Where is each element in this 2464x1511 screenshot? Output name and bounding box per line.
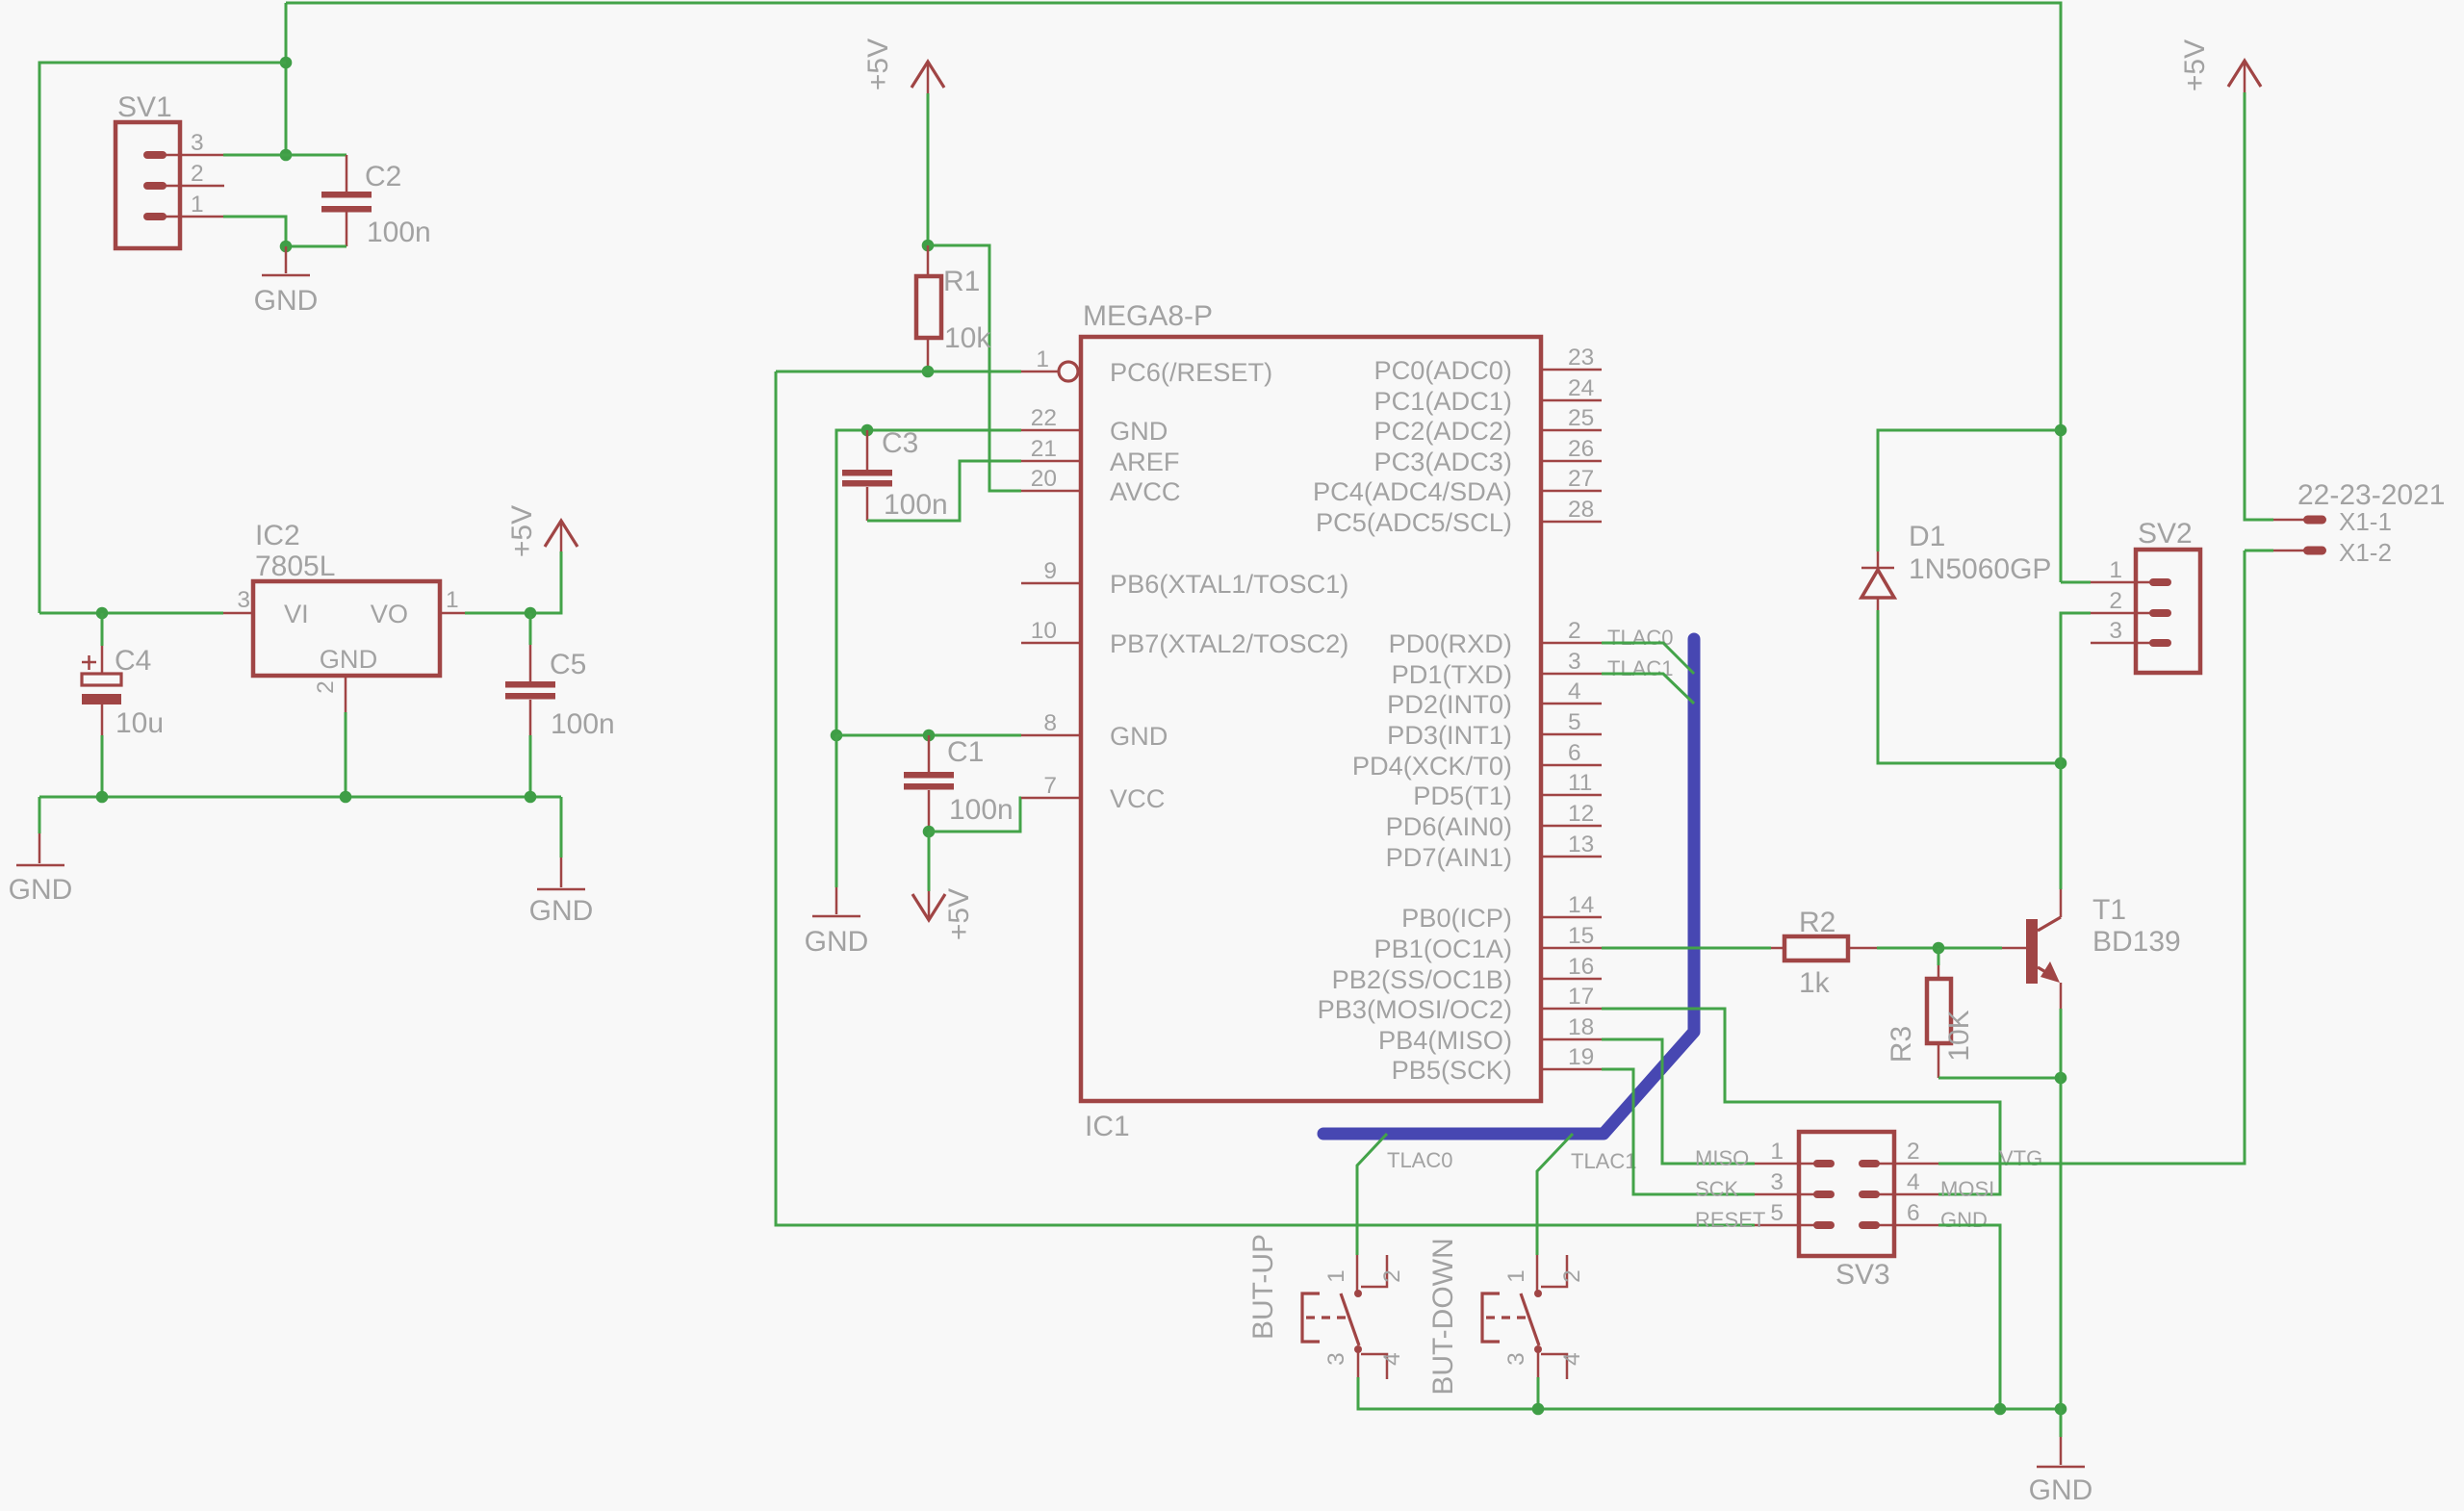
wire pin8 GND — [836, 734, 1021, 737]
svg-text:SV1: SV1 — [117, 91, 172, 123]
svg-text:PD3(INT1): PD3(INT1) — [1387, 720, 1512, 750]
svg-text:23: 23 — [1568, 345, 1594, 371]
svg-text:PB2(SS/OC1B): PB2(SS/OC1B) — [1332, 964, 1512, 994]
svg-text:GND: GND — [529, 895, 594, 927]
svg-text:R3: R3 — [1886, 1026, 1917, 1063]
svg-text:PC0(ADC0): PC0(ADC0) — [1373, 355, 1512, 385]
connector SV2 — [2136, 550, 2200, 673]
svg-text:R2: R2 — [1799, 907, 1835, 938]
terminal X1-2 — [2273, 550, 2307, 552]
ground GND under SV1 — [285, 246, 288, 273]
svg-text:100n: 100n — [949, 794, 1014, 826]
node RESET junction — [922, 366, 935, 378]
svg-text:22-23-2021: 22-23-2021 — [2297, 479, 2445, 511]
svg-text:PD0(RXD): PD0(RXD) — [1389, 628, 1512, 658]
svg-text:28: 28 — [1568, 497, 1594, 523]
capacitor C4 polarized — [101, 613, 104, 646]
svg-text:2: 2 — [313, 680, 339, 694]
ground GND bottom right — [2060, 1409, 2063, 1437]
svg-text:10K: 10K — [1943, 1010, 1975, 1061]
node C1 bottom junction — [923, 826, 936, 838]
svg-text:PD7(AIN1): PD7(AIN1) — [1386, 842, 1512, 872]
power +5V arrow at 7805 — [560, 521, 563, 551]
wire raw rail to SV2 pin1 — [2061, 581, 2091, 584]
svg-text:7805L: 7805L — [255, 551, 335, 582]
pin IC1-16 — [1541, 978, 1602, 981]
svg-text:2: 2 — [1379, 1269, 1405, 1283]
pin SV3-4 MOSI — [1869, 1193, 1938, 1196]
svg-text:SV3: SV3 — [1835, 1259, 1890, 1291]
svg-text:PB7(XTAL2/TOSC2): PB7(XTAL2/TOSC2) — [1110, 628, 1348, 658]
wire +5V to AVCC — [928, 245, 1021, 491]
svg-text:1: 1 — [446, 587, 459, 613]
svg-text:GND: GND — [1110, 416, 1168, 446]
wire D1 top branch — [1878, 430, 2061, 551]
node gnd rail junction 1 — [1532, 1403, 1545, 1416]
svg-text:BD139: BD139 — [2092, 926, 2181, 958]
diode D1 1N5060GP — [1877, 551, 1880, 570]
svg-text:AVCC: AVCC — [1110, 476, 1181, 506]
svg-text:+5V: +5V — [506, 505, 538, 557]
svg-text:1k: 1k — [1799, 967, 1831, 999]
power +5V arrow top middle — [927, 62, 930, 93]
wire input to VI — [39, 612, 223, 615]
wire PB1 to R2 — [1602, 947, 1771, 950]
svg-text:VCC: VCC — [1110, 783, 1165, 813]
power +5V arrow down — [928, 832, 931, 891]
svg-text:PC3(ADC3): PC3(ADC3) — [1373, 447, 1512, 476]
svg-text:PB4(MISO): PB4(MISO) — [1378, 1025, 1512, 1055]
pin IC1-13 — [1541, 856, 1602, 858]
svg-text:26: 26 — [1568, 436, 1594, 462]
svg-text:2: 2 — [1907, 1139, 1920, 1165]
wire R2 to base — [1877, 947, 2002, 950]
svg-text:GND: GND — [1940, 1208, 1988, 1232]
pin IC1-18 PB4 — [1541, 1038, 1602, 1041]
svg-text:5: 5 — [1770, 1200, 1784, 1226]
svg-text:1: 1 — [1323, 1269, 1349, 1283]
svg-text:25: 25 — [1568, 405, 1594, 431]
pin SV3-2 VTG — [1869, 1163, 1938, 1165]
pin SV3-1 MISO — [1755, 1163, 1824, 1165]
pin IC2-3 VI — [223, 612, 253, 615]
svg-text:3: 3 — [1323, 1352, 1349, 1366]
svg-text:2: 2 — [1559, 1269, 1585, 1283]
pin IC1-1 PC6/RESET with bubble — [1021, 371, 1059, 373]
svg-text:1: 1 — [1503, 1269, 1529, 1283]
svg-text:21: 21 — [1031, 436, 1057, 462]
svg-text:19: 19 — [1568, 1044, 1594, 1070]
svg-text:6: 6 — [1568, 740, 1581, 766]
svg-text:MEGA8-P: MEGA8-P — [1083, 300, 1213, 332]
resistor R3 10K — [1938, 948, 1940, 965]
svg-text:TLAC1: TLAC1 — [1607, 656, 1673, 680]
svg-text:PB6(XTAL1/TOSC1): PB6(XTAL1/TOSC1) — [1110, 569, 1348, 599]
svg-text:TLAC1: TLAC1 — [1571, 1149, 1636, 1173]
svg-text:TLAC0: TLAC0 — [1607, 626, 1673, 650]
svg-text:GND: GND — [254, 285, 319, 317]
pin IC1-8 GND — [1021, 734, 1081, 737]
regulator IC2 7805L — [253, 581, 440, 676]
pin SV1-3 — [155, 154, 223, 157]
svg-text:13: 13 — [1568, 832, 1594, 858]
wire SV1 branch vertical — [285, 3, 288, 155]
svg-text:PD1(TXD): PD1(TXD) — [1392, 659, 1512, 689]
wire PD0 to bus entry — [1602, 643, 1694, 674]
pin SV3-5 RESET — [1755, 1224, 1824, 1227]
pin IC1-27 — [1541, 490, 1602, 493]
capacitor C3 100n — [866, 430, 869, 470]
svg-text:SV2: SV2 — [2138, 518, 2193, 550]
node gnd rail junction 3 — [2055, 1403, 2067, 1416]
svg-text:18: 18 — [1568, 1014, 1594, 1040]
svg-text:1: 1 — [191, 192, 204, 218]
wire D1 bottom branch — [1878, 610, 2061, 763]
pin IC1-22 GND — [1021, 429, 1081, 432]
svg-text:1: 1 — [1036, 346, 1049, 372]
node R1 top junction — [922, 240, 935, 252]
svg-text:GND: GND — [805, 926, 869, 958]
svg-text:PB5(SCK): PB5(SCK) — [1392, 1055, 1512, 1085]
svg-text:2: 2 — [191, 161, 204, 187]
pin IC1-9 PB6 — [1021, 582, 1081, 585]
svg-text:BUT-UP: BUT-UP — [1247, 1234, 1279, 1340]
pin IC1-15 PB1 — [1541, 947, 1602, 950]
svg-text:MISO: MISO — [1695, 1146, 1749, 1170]
svg-text:15: 15 — [1568, 923, 1594, 949]
pin IC1-21 AREF — [1021, 460, 1081, 463]
transistor T1 BD139 — [2002, 947, 2027, 950]
wire BUT-UP to gnd rail — [1358, 1377, 2061, 1409]
wire +5V down to R1 — [927, 93, 930, 245]
svg-text:C1: C1 — [947, 736, 984, 768]
svg-text:PC2(ADC2): PC2(ADC2) — [1373, 416, 1512, 446]
bus TLAC blue — [1323, 639, 1694, 1134]
node base junction — [1933, 942, 1945, 955]
svg-text:3: 3 — [1503, 1352, 1529, 1366]
svg-text:4: 4 — [1379, 1352, 1405, 1366]
pin IC1-7 VCC — [1021, 797, 1081, 800]
svg-text:PD5(T1): PD5(T1) — [1413, 781, 1512, 810]
svg-text:C4: C4 — [115, 645, 151, 677]
wire VTG to X1-2 riser — [1938, 551, 2245, 1164]
pin IC1-17 PB3 — [1541, 1008, 1602, 1011]
svg-text:GND: GND — [2029, 1474, 2093, 1506]
wire R3 bottom to emitter — [1938, 1077, 2061, 1080]
node D1 bottom junction — [2055, 757, 2067, 770]
pin SV2-1 — [2091, 581, 2161, 584]
wire X1-2 stub — [2245, 550, 2273, 552]
svg-text:20: 20 — [1031, 466, 1057, 492]
svg-text:C5: C5 — [550, 649, 586, 680]
svg-text:4: 4 — [1559, 1352, 1585, 1366]
wire to left column — [39, 63, 286, 613]
terminal X1-1 — [2273, 519, 2307, 522]
pin SV3-3 SCK — [1755, 1193, 1824, 1196]
wire SV2 pin2 to T1 collector — [2061, 613, 2091, 889]
svg-text:16: 16 — [1568, 954, 1594, 980]
svg-text:C2: C2 — [365, 161, 401, 192]
svg-text:MOSI: MOSI — [1940, 1177, 1994, 1201]
node C5 top junction — [525, 607, 537, 620]
connector SV1 — [115, 122, 180, 248]
svg-text:14: 14 — [1568, 892, 1594, 918]
svg-text:3: 3 — [237, 587, 250, 613]
node C1 top junction — [923, 730, 936, 742]
pin IC1-10 PB7 — [1021, 642, 1081, 645]
svg-text:4: 4 — [1907, 1169, 1920, 1195]
svg-text:X1-2: X1-2 — [2339, 538, 2392, 567]
op-amp IC1 MEGA8-P body — [1081, 337, 1541, 1101]
svg-text:9: 9 — [1043, 558, 1057, 584]
svg-text:X1-1: X1-1 — [2339, 507, 2392, 536]
wire RESET net — [776, 371, 1021, 373]
svg-text:10u: 10u — [115, 707, 164, 739]
wire emitter to gnd rail — [2060, 1078, 2063, 1409]
wire SV1-1 to C2 bottom — [223, 217, 286, 246]
svg-text:PB3(MOSI/OC2): PB3(MOSI/OC2) — [1318, 994, 1512, 1024]
svg-text:+5V: +5V — [943, 888, 975, 940]
capacitor C1 100n — [928, 735, 931, 772]
svg-text:BUT-DOWN: BUT-DOWN — [1427, 1238, 1459, 1395]
capacitor C2 — [286, 154, 346, 157]
node C2-GND junction — [280, 241, 293, 253]
pin IC1-4 — [1541, 703, 1602, 705]
svg-text:1: 1 — [1770, 1139, 1784, 1165]
pin SV2-3 — [2091, 642, 2161, 645]
svg-text:1: 1 — [2109, 557, 2122, 583]
wire +5V to X1-1 — [2245, 92, 2273, 520]
svg-text:TLAC0: TLAC0 — [1387, 1148, 1452, 1172]
svg-text:PC6(/RESET): PC6(/RESET) — [1110, 357, 1272, 387]
svg-text:PC1(ADC1): PC1(ADC1) — [1373, 386, 1512, 416]
svg-text:3: 3 — [1568, 649, 1581, 675]
ground GND left — [38, 797, 41, 833]
node SV1 pin3 junction — [280, 149, 293, 162]
pin IC1-6 — [1541, 764, 1602, 767]
wire GND pin22 net — [836, 430, 1021, 735]
svg-text:1N5060GP: 1N5060GP — [1909, 553, 2051, 585]
wire C3 bottom to AREF — [867, 461, 1021, 521]
capacitor C5 — [529, 613, 532, 645]
svg-text:VI: VI — [284, 599, 309, 628]
pin IC1-23 — [1541, 369, 1602, 371]
ground GND right of psu — [560, 797, 563, 858]
wire GND rail of psu — [39, 796, 561, 799]
pin IC1-19 PB5 — [1541, 1068, 1602, 1071]
ground GND middle — [835, 735, 838, 887]
svg-text:17: 17 — [1568, 984, 1594, 1010]
svg-text:GND: GND — [9, 874, 73, 906]
node emitter junction — [2055, 1072, 2067, 1085]
svg-text:+5V: +5V — [862, 38, 894, 90]
pin IC1-24 — [1541, 399, 1602, 402]
wire IC2 GND down — [345, 712, 347, 797]
svg-text:2: 2 — [1568, 618, 1581, 644]
pin IC1-25 — [1541, 429, 1602, 432]
svg-text:GND: GND — [320, 644, 377, 674]
svg-text:5: 5 — [1568, 709, 1581, 735]
wire BUT-DOWN to gnd rail — [1537, 1377, 1540, 1409]
svg-text:PC5(ADC5/SCL): PC5(ADC5/SCL) — [1316, 507, 1512, 537]
pin IC2-2 GND — [345, 676, 347, 712]
svg-text:VTG: VTG — [1999, 1146, 2042, 1170]
svg-text:D1: D1 — [1909, 521, 1945, 552]
svg-text:3: 3 — [2109, 618, 2122, 644]
pin SV3-6 GND — [1869, 1224, 1938, 1227]
svg-text:PC4(ADC4/SDA): PC4(ADC4/SDA) — [1313, 476, 1512, 506]
connector SV3 — [1799, 1132, 1894, 1256]
svg-text:3: 3 — [191, 130, 204, 156]
pin SV1-2 — [155, 185, 224, 188]
svg-text:6: 6 — [1907, 1200, 1920, 1226]
svg-text:11: 11 — [1568, 770, 1592, 796]
node C3 top junction — [861, 424, 874, 437]
pin IC1-26 — [1541, 460, 1602, 463]
pin IC1-5 — [1541, 733, 1602, 736]
svg-text:PB1(OC1A): PB1(OC1A) — [1373, 934, 1512, 963]
resistor R2 1k — [1771, 947, 1784, 950]
pin IC1-28 — [1541, 521, 1602, 524]
svg-text:4: 4 — [1568, 679, 1581, 704]
power +5V arrow top right — [2244, 61, 2246, 92]
svg-text:T1: T1 — [2092, 894, 2126, 926]
wire bus exit TLAC1 — [1537, 1134, 1573, 1255]
wire bus exit TLAC0 — [1357, 1134, 1387, 1255]
node top-left junction — [280, 57, 293, 69]
svg-text:10k: 10k — [944, 322, 991, 354]
svg-text:7: 7 — [1043, 773, 1057, 799]
wire PB4 MISO to SV3 — [1602, 1039, 1755, 1164]
pin IC2-1 VO — [440, 612, 465, 615]
pin IC1-2 PD0 — [1541, 642, 1602, 645]
wire PB3 MOSI to SV3 — [1602, 1009, 2000, 1194]
svg-text:AREF: AREF — [1110, 447, 1180, 476]
svg-text:PD6(AIN0): PD6(AIN0) — [1386, 811, 1512, 841]
svg-text:PB0(ICP): PB0(ICP) — [1401, 903, 1512, 933]
svg-text:R1: R1 — [943, 266, 980, 297]
wire C1 bottom to VCC pin7 — [929, 798, 1021, 832]
svg-text:8: 8 — [1043, 710, 1057, 736]
wire SV1-3 to net — [223, 154, 286, 157]
svg-text:SCK: SCK — [1695, 1177, 1739, 1201]
wire SV3 GND down — [1938, 1225, 2000, 1409]
svg-text:VO: VO — [371, 599, 408, 628]
svg-text:IC1: IC1 — [1085, 1111, 1130, 1142]
pin IC1-12 — [1541, 825, 1602, 828]
node GND mid junction — [831, 730, 843, 742]
wire PB5 SCK to SV3 — [1602, 1069, 1755, 1194]
svg-text:27: 27 — [1568, 466, 1594, 492]
node gnd rail junction 2 — [1994, 1403, 2007, 1416]
svg-text:100n: 100n — [551, 708, 615, 740]
svg-text:12: 12 — [1568, 801, 1594, 827]
wire VO to +5V and C5 — [465, 551, 561, 613]
svg-text:24: 24 — [1568, 375, 1594, 401]
pin IC1-11 — [1541, 794, 1602, 797]
pin IC1-14 — [1541, 916, 1602, 919]
svg-text:10: 10 — [1031, 618, 1057, 644]
svg-text:RESET: RESET — [1695, 1208, 1765, 1232]
svg-text:+5V: +5V — [2179, 39, 2211, 91]
pin SV1-1 — [155, 216, 223, 218]
svg-text:100n: 100n — [367, 217, 431, 248]
wire C2 bottom to GND — [286, 245, 346, 248]
svg-text:100n: 100n — [884, 489, 948, 521]
wire RESET long run to SV3 — [776, 371, 1755, 1225]
svg-text:PD2(INT0): PD2(INT0) — [1387, 689, 1512, 719]
node C4 top junction — [96, 607, 109, 620]
pin SV2-2 — [2091, 612, 2161, 615]
svg-text:22: 22 — [1031, 405, 1057, 431]
svg-text:GND: GND — [1110, 721, 1168, 751]
resistor R1 10k — [927, 245, 930, 276]
node D1 top junction — [2055, 424, 2067, 437]
svg-text:3: 3 — [1770, 1169, 1784, 1195]
pin IC1-3 PD1 — [1541, 673, 1602, 676]
pin IC1-20 AVCC — [1021, 490, 1081, 493]
wire top +12V rail — [286, 3, 2061, 582]
wire PD1 to bus entry — [1602, 674, 1694, 704]
svg-text:C3: C3 — [882, 427, 918, 459]
svg-text:PD4(XCK/T0): PD4(XCK/T0) — [1352, 751, 1512, 781]
svg-text:IC2: IC2 — [255, 520, 300, 551]
svg-text:2: 2 — [2109, 588, 2122, 614]
